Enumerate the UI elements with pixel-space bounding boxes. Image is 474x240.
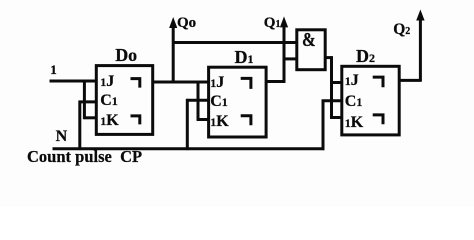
arrowhead Q1 xyxy=(280,16,288,27)
arrowhead Q2 xyxy=(416,10,424,21)
wire: Q2 riser with arrow xyxy=(419,17,422,81)
arrowhead Q0 xyxy=(169,17,177,28)
label Count pulse CP xyxy=(27,149,142,166)
bracket Qbar output D2 xyxy=(373,115,383,124)
pin label C1 of D2 xyxy=(345,94,363,110)
label D1 xyxy=(235,48,254,66)
pin label 1J of D2 xyxy=(345,73,359,89)
pin label C1 of D1 xyxy=(210,94,228,110)
wire: Q1 riser with arrow xyxy=(283,24,286,83)
wire: Q1 stub into AND gate xyxy=(284,57,297,60)
wire: C stub of D1 xyxy=(186,99,209,102)
label Do xyxy=(115,46,137,64)
wire: tie J-K of D1 xyxy=(197,81,200,121)
wire: clock riser to C1 of D1 xyxy=(186,99,189,150)
wire: K stub of D2 xyxy=(330,116,342,119)
flip-flop D0 box xyxy=(96,66,152,135)
wire: Q0 feed to AND gate xyxy=(173,41,297,44)
wire: clock riser to C1 of D0 xyxy=(78,101,81,151)
AND gate U1 box xyxy=(297,30,325,70)
wire: clock riser to C1 of D2 xyxy=(322,100,325,151)
label Q2 xyxy=(393,22,410,38)
label & of AND gate xyxy=(302,30,316,51)
wire: C stub of D2 xyxy=(322,99,342,102)
wire: D1 output to Q1 node xyxy=(266,80,285,83)
label Q1 xyxy=(264,16,281,31)
wire: logic-1 input to J of D0 xyxy=(50,80,97,83)
wire: D2 output to Q2 xyxy=(399,79,421,82)
wire: AND output stub xyxy=(325,56,333,59)
wire: AND output riser down to J and K of D2 xyxy=(330,56,333,119)
flip-flop D1 box xyxy=(209,67,267,137)
label D2 xyxy=(356,47,375,65)
bracket Qbar output D0 xyxy=(131,116,140,125)
wire: K stub of D1 xyxy=(197,118,209,121)
wire: count pulse CP bus xyxy=(53,147,325,150)
bracket Q output D1 xyxy=(241,78,251,89)
bracket Q output D0 xyxy=(131,79,140,88)
wire: J stub of D2 xyxy=(330,81,342,84)
label: logic 1 xyxy=(50,63,57,76)
pin label 1J of D0 xyxy=(100,74,114,90)
wire: Q0 riser with arrow xyxy=(172,25,175,84)
wire: C stub of D0 xyxy=(79,100,97,103)
wire: tie 1 down to K of D0 xyxy=(83,80,86,119)
pin label 1K of D2 xyxy=(345,115,363,131)
label Qo xyxy=(177,16,196,31)
wire: D0 output to Q0 node and D1 J input xyxy=(153,81,209,84)
pin label C1 of D0 xyxy=(100,93,118,109)
label N xyxy=(56,129,68,145)
wire: K stub of D0 xyxy=(84,116,97,119)
bracket Q output D2 xyxy=(373,77,383,87)
bracket Qbar output D1 xyxy=(241,116,251,126)
pin label 1J of D1 xyxy=(210,75,224,91)
flip-flop D2 box xyxy=(342,66,399,135)
pin label 1K of D0 xyxy=(100,113,118,129)
pin label 1K of D1 xyxy=(210,114,228,130)
